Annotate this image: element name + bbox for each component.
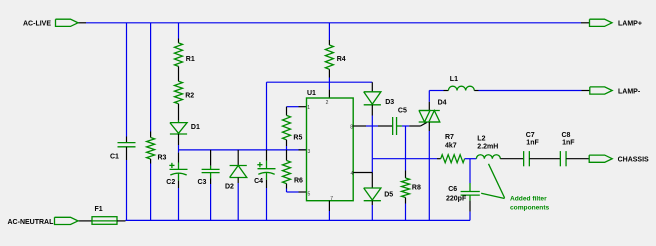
svg-text:R6: R6 (294, 178, 303, 185)
svg-text:R5: R5 (293, 135, 302, 142)
svg-text:D2: D2 (225, 183, 234, 190)
svg-text:4k7: 4k7 (445, 143, 457, 150)
svg-text:D5: D5 (384, 192, 393, 199)
svg-text:AC-NEUTRAL: AC-NEUTRAL (8, 219, 55, 226)
svg-text:2.2mH: 2.2mH (477, 143, 498, 150)
svg-text:F1: F1 (95, 206, 103, 213)
svg-text:AC-LIVE: AC-LIVE (23, 21, 51, 28)
svg-text:D3: D3 (385, 99, 394, 106)
svg-text:R2: R2 (185, 93, 194, 100)
svg-text:8: 8 (350, 124, 353, 130)
svg-text:components: components (510, 205, 550, 212)
svg-text:2: 2 (326, 100, 329, 106)
svg-text:C2: C2 (166, 179, 175, 186)
svg-text:R4: R4 (337, 56, 346, 63)
svg-text:C5: C5 (398, 107, 407, 114)
svg-text:R7: R7 (445, 134, 454, 141)
svg-text:L1: L1 (450, 76, 458, 83)
svg-text:L2: L2 (477, 136, 485, 143)
svg-text:1nF: 1nF (562, 140, 575, 147)
svg-text:C8: C8 (562, 132, 571, 139)
svg-text:4: 4 (351, 171, 354, 177)
svg-text:R3: R3 (158, 154, 167, 161)
svg-text:D1: D1 (191, 124, 200, 131)
svg-text:C4: C4 (254, 178, 263, 185)
svg-text:C6: C6 (448, 186, 457, 193)
svg-text:7: 7 (330, 196, 333, 202)
svg-text:5: 5 (308, 191, 311, 197)
svg-text:LAMP+: LAMP+ (618, 21, 642, 28)
svg-text:D4: D4 (438, 100, 447, 107)
svg-text:R1: R1 (186, 56, 195, 63)
svg-text:220pF: 220pF (446, 196, 467, 203)
svg-text:C3: C3 (198, 179, 207, 186)
svg-text:1: 1 (307, 105, 310, 111)
svg-text:1nF: 1nF (526, 140, 539, 147)
svg-text:CHASSIS: CHASSIS (618, 157, 649, 164)
svg-text:C7: C7 (526, 132, 535, 139)
svg-text:C1: C1 (110, 154, 119, 161)
svg-text:LAMP-: LAMP- (618, 88, 641, 95)
svg-text:U1: U1 (307, 90, 316, 97)
svg-text:R8: R8 (412, 185, 421, 192)
svg-text:Added filter: Added filter (510, 196, 547, 203)
svg-text:3: 3 (308, 149, 311, 155)
